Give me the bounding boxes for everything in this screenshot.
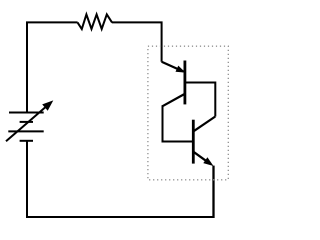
battery V1 variable arrow shaft xyxy=(6,105,49,142)
wire bottom-left: from battery down, bottom run to right drop xyxy=(27,141,214,217)
wire top-left: left vertical from top corner down to battery xyxy=(27,22,78,112)
transistor Q1 emitter arrowhead xyxy=(176,66,186,73)
transistor Q1 collector wire xyxy=(163,94,185,106)
resistor R1 xyxy=(78,14,113,29)
wire Q1 collector down and to Q2 base xyxy=(163,105,193,141)
battery V1 short plate (upper) xyxy=(20,121,33,123)
battery V1 long plate (lower) xyxy=(8,130,43,132)
transistor Q2 (NPN) base bar xyxy=(192,120,195,164)
SCR equivalent dotted enclosure xyxy=(148,46,228,180)
battery V1 short plate (bottom) xyxy=(20,140,33,142)
transistor Q1 (PNP) base bar xyxy=(183,61,186,105)
battery V1 long plate (top) xyxy=(9,112,44,114)
transistor Q1 base wire to right xyxy=(186,83,215,117)
transistor Q2 emitter arrowhead xyxy=(203,157,213,166)
battery V1 variable arrowhead xyxy=(42,100,53,110)
transistor Q2 emitter wire xyxy=(194,152,207,161)
wire Q1 base to Q2 collector diagonal xyxy=(194,117,216,132)
wire top-right: from resistor to corner and drop toward Q1 emitter xyxy=(112,22,162,61)
wire right drop: from Q2 emitter down to bottom wire xyxy=(212,166,214,218)
transistor Q1 emitter wire xyxy=(162,62,183,72)
